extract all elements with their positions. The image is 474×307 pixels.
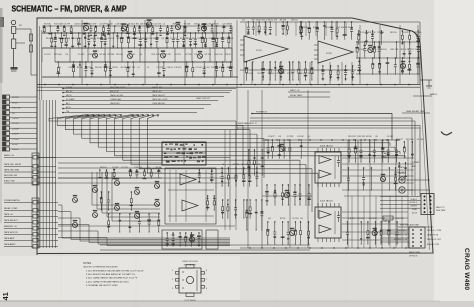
svg-text:C7 102: C7 102 xyxy=(195,67,202,69)
svg-text:R8 150: R8 150 xyxy=(280,20,287,22)
svg-text:R31 12K: R31 12K xyxy=(357,136,365,138)
svg-text:C3 10P: C3 10P xyxy=(12,128,19,130)
svg-text:R8 150: R8 150 xyxy=(380,49,387,51)
svg-text:C7 102: C7 102 xyxy=(12,139,19,141)
svg-text:C41 104: C41 104 xyxy=(74,38,82,40)
svg-text:R3 1K: R3 1K xyxy=(127,38,133,40)
svg-text:TAPE AMP2: TAPE AMP2 xyxy=(4,243,16,246)
svg-text:IC401 TA7222: IC401 TA7222 xyxy=(320,200,334,203)
svg-text:5. NOMINAL VALUE NOT USED: 5. NOMINAL VALUE NOT USED xyxy=(86,284,118,287)
svg-text:C3 10P: C3 10P xyxy=(99,24,106,26)
svg-text:R9 10K: R9 10K xyxy=(116,54,123,56)
svg-text:EJECT SW: EJECT SW xyxy=(4,181,15,183)
svg-text:C9 47P: C9 47P xyxy=(402,32,409,34)
svg-text:R7 220: R7 220 xyxy=(257,73,264,75)
svg-text:R2 68: R2 68 xyxy=(12,144,18,146)
svg-text:LEAD SW ANT GND: LEAD SW ANT GND xyxy=(406,110,425,113)
svg-text:AM STOP: AM STOP xyxy=(110,90,120,93)
svg-text:R14 2.2K: R14 2.2K xyxy=(214,38,223,40)
svg-text:R5 33K: R5 33K xyxy=(108,54,115,56)
svg-text:PURPLE: PURPLE xyxy=(409,202,417,204)
svg-text:PURPLE + COM: PURPLE + COM xyxy=(427,230,442,232)
svg-text:R3 1K: R3 1K xyxy=(156,167,162,169)
svg-text:R17 100K: R17 100K xyxy=(224,38,234,40)
svg-text:R5 33K: R5 33K xyxy=(325,27,332,29)
svg-text:R17 100K: R17 100K xyxy=(54,24,64,26)
svg-text:POWER: POWER xyxy=(412,162,420,164)
svg-text:3. ALL CAPACITANCE VALUES ARE: 3. ALL CAPACITANCE VALUES ARE IN μF, P=1… xyxy=(86,277,138,280)
svg-text:BLUE: BLUE xyxy=(412,212,418,214)
svg-text:MUTE AB COMP: MUTE AB COMP xyxy=(110,86,126,89)
svg-text:C22 47U: C22 47U xyxy=(187,38,195,40)
svg-text:R21 560: R21 560 xyxy=(85,67,93,69)
svg-text:TAPE LED FM: TAPE LED FM xyxy=(110,94,123,97)
svg-text:C3 10P: C3 10P xyxy=(297,136,304,138)
svg-text:BROWN P.L. IN: BROWN P.L. IN xyxy=(394,239,408,241)
svg-text:C2 223: C2 223 xyxy=(104,67,111,69)
svg-text:TAPE MOTOR: TAPE MOTOR xyxy=(4,231,18,234)
svg-text:ST LAMP: ST LAMP xyxy=(66,98,75,101)
svg-text:R7 220: R7 220 xyxy=(12,123,19,125)
svg-text:RADIO SIDE: RADIO SIDE xyxy=(409,251,421,254)
svg-text:R17 100K: R17 100K xyxy=(137,38,147,40)
svg-text:RADIO +B: RADIO +B xyxy=(4,154,14,157)
svg-text:GREEN: GREEN xyxy=(410,206,417,208)
svg-text:C11 473: C11 473 xyxy=(306,73,314,75)
svg-text:R31 12K: R31 12K xyxy=(136,24,144,26)
svg-text:TAPE LED +B/FM: TAPE LED +B/FM xyxy=(4,163,21,166)
svg-text:RED BATT: RED BATT xyxy=(398,229,408,232)
svg-text:R21 560: R21 560 xyxy=(406,139,414,141)
svg-text:TAPE REC: TAPE REC xyxy=(110,102,120,105)
svg-text:C2 223: C2 223 xyxy=(233,164,240,166)
svg-text:MUTE: MUTE xyxy=(66,95,72,97)
svg-text:C9 47P: C9 47P xyxy=(146,20,153,22)
svg-text:R3 1K: R3 1K xyxy=(112,67,118,69)
svg-text:R5 33K: R5 33K xyxy=(46,38,53,40)
svg-text:R9 10K: R9 10K xyxy=(99,54,106,56)
svg-text:R2 68: R2 68 xyxy=(366,136,372,138)
svg-text:C11 473: C11 473 xyxy=(270,20,278,22)
svg-text:(TOP VIEW): (TOP VIEW) xyxy=(184,300,195,302)
svg-text:C34 01: C34 01 xyxy=(74,24,81,26)
svg-text:R12 4.7K: R12 4.7K xyxy=(277,73,286,75)
svg-text:C9 47P: C9 47P xyxy=(396,139,403,141)
svg-text:C9 47P: C9 47P xyxy=(63,24,70,26)
svg-text:WHITE F.P. OUT: WHITE F.P. OUT xyxy=(427,239,442,241)
svg-text:TAPE SELECT: TAPE SELECT xyxy=(152,94,166,97)
svg-text:OF PLUG: OF PLUG xyxy=(409,256,418,258)
svg-text:MEMORY +B: MEMORY +B xyxy=(4,226,17,228)
svg-text:C34 01: C34 01 xyxy=(298,73,305,75)
svg-text:C15 1U: C15 1U xyxy=(302,27,309,29)
svg-text:C9 47P: C9 47P xyxy=(78,54,85,56)
svg-text:6: 6 xyxy=(206,288,207,290)
svg-text:R31 12K: R31 12K xyxy=(348,136,356,138)
svg-text:IC401 TA7222: IC401 TA7222 xyxy=(320,145,334,148)
svg-text:R9 10K: R9 10K xyxy=(95,67,102,69)
svg-text:SCHEMATIC – FM, DRIVER, & AMP: SCHEMATIC – FM, DRIVER, & AMP xyxy=(12,3,127,13)
svg-text:FADER COMP: FADER COMP xyxy=(384,156,398,159)
svg-text:RECORD SW: RECORD SW xyxy=(4,175,17,177)
svg-text:1. ALL RESISTANCE VALUES ARE I: 1. ALL RESISTANCE VALUES ARE IN OHM, K=1… xyxy=(86,270,144,273)
svg-text:C9 47P: C9 47P xyxy=(157,67,164,69)
svg-text:R3 1K: R3 1K xyxy=(201,24,207,26)
svg-text:LM383 UPC1185: LM383 UPC1185 xyxy=(182,261,199,263)
svg-text:1: 1 xyxy=(172,270,173,272)
svg-text:BLACK: BLACK xyxy=(398,166,405,169)
svg-text:R31 12K: R31 12K xyxy=(368,32,376,34)
svg-text:RELAY COMP: RELAY COMP xyxy=(4,207,18,210)
svg-text:BLUE R COM: BLUE R COM xyxy=(427,244,439,246)
svg-text:R3 1K: R3 1K xyxy=(345,27,351,29)
svg-text:R14 2.2K: R14 2.2K xyxy=(395,218,404,220)
svg-text:TUNING AB: TUNING AB xyxy=(110,98,121,101)
svg-text:IC202: IC202 xyxy=(326,53,333,55)
svg-text:R8 150: R8 150 xyxy=(100,167,107,169)
svg-text:R3 1K: R3 1K xyxy=(225,54,231,56)
svg-text:R21 560: R21 560 xyxy=(54,38,62,40)
svg-text:C2 223: C2 223 xyxy=(121,167,128,169)
svg-text:R12 4.7K: R12 4.7K xyxy=(252,164,261,166)
svg-text:R8 150: R8 150 xyxy=(291,20,298,22)
svg-text:C15 1U: C15 1U xyxy=(68,67,75,69)
svg-text:R7 220: R7 220 xyxy=(205,54,212,56)
svg-text:C22 47U: C22 47U xyxy=(163,54,171,56)
svg-text:R14 2.2K: R14 2.2K xyxy=(12,108,21,110)
svg-text:FM 1M: FM 1M xyxy=(66,87,73,89)
svg-text:C2 223: C2 223 xyxy=(44,54,51,56)
svg-text:R2 68: R2 68 xyxy=(121,67,127,69)
svg-text:EJECT SW: EJECT SW xyxy=(152,87,162,89)
svg-text:C18 33U: C18 33U xyxy=(127,24,135,26)
svg-text:C15 1U: C15 1U xyxy=(203,67,210,69)
svg-text:R5 33K: R5 33K xyxy=(12,97,19,99)
svg-text:GRAY F.P. IN: GRAY F.P. IN xyxy=(427,234,439,237)
svg-text:SIDE VIEW: SIDE VIEW xyxy=(436,210,446,212)
svg-text:2: 2 xyxy=(172,279,173,281)
svg-text:BLACK: BLACK xyxy=(384,152,391,155)
svg-text:UNLESS OTHERWISE INDICATED:: UNLESS OTHERWISE INDICATED: xyxy=(83,266,119,269)
svg-text:R7 220: R7 220 xyxy=(129,67,136,69)
svg-text:GREEN P.L. IN: GREEN P.L. IN xyxy=(394,235,407,237)
svg-text:3: 3 xyxy=(172,288,173,290)
svg-text:R9 10K: R9 10K xyxy=(246,73,253,75)
svg-text:C9 47P: C9 47P xyxy=(368,49,375,51)
svg-text:C15 1U: C15 1U xyxy=(287,73,294,75)
svg-text:TAPE LED GND: TAPE LED GND xyxy=(4,169,20,172)
svg-text:TAPE SEL CONT: TAPE SEL CONT xyxy=(152,98,168,101)
svg-text:7: 7 xyxy=(206,279,207,281)
svg-text:TM: TM xyxy=(66,111,69,113)
svg-text:R21 560: R21 560 xyxy=(241,164,249,166)
svg-text:TAPE +B: TAPE +B xyxy=(4,213,13,216)
svg-text:R12 4.7K: R12 4.7K xyxy=(152,54,161,56)
svg-text:CRAIG W460: CRAIG W460 xyxy=(463,248,470,290)
svg-text:PINK PINK AUTO ANT: PINK PINK AUTO ANT xyxy=(400,224,420,227)
svg-text:NOTES: NOTES xyxy=(83,262,92,265)
svg-text:4. ALL CAPACITORS ARE RATED AT: 4. ALL CAPACITORS ARE RATED AT 50(V) xyxy=(86,280,129,283)
svg-text:C11 473: C11 473 xyxy=(153,24,161,26)
svg-text:R7 220: R7 220 xyxy=(378,32,385,34)
svg-text:IC201: IC201 xyxy=(256,50,263,52)
svg-text:R8 150: R8 150 xyxy=(83,23,90,25)
svg-text:41: 41 xyxy=(1,292,10,300)
svg-text:TAPE SELECT: TAPE SELECT xyxy=(4,219,19,222)
svg-text:R7 220: R7 220 xyxy=(212,24,219,26)
svg-text:C9 47P: C9 47P xyxy=(90,24,97,26)
svg-text:R3 1K: R3 1K xyxy=(194,24,200,26)
svg-text:C22 47U: C22 47U xyxy=(134,167,142,169)
svg-text:C2 223: C2 223 xyxy=(112,167,119,169)
svg-text:C34 01: C34 01 xyxy=(211,67,218,69)
svg-text:R9 10K: R9 10K xyxy=(358,49,365,51)
svg-text:PHONE JACK: PHONE JACK xyxy=(394,171,407,174)
svg-text:R21 560: R21 560 xyxy=(54,54,62,56)
svg-text:AF R: AF R xyxy=(66,106,71,109)
svg-text:C15 1U: C15 1U xyxy=(268,73,275,75)
svg-text:RADIO +B: RADIO +B xyxy=(290,89,300,92)
svg-text:C11 473: C11 473 xyxy=(174,67,182,69)
svg-text:FUSE 5A: FUSE 5A xyxy=(382,220,391,223)
svg-text:C2 223: C2 223 xyxy=(174,54,181,56)
svg-text:C2 223: C2 223 xyxy=(287,136,294,138)
svg-text:C3 10P: C3 10P xyxy=(387,136,394,138)
svg-text:C3 10P: C3 10P xyxy=(417,139,424,141)
svg-text:R3 1K: R3 1K xyxy=(12,102,18,104)
svg-text:8: 8 xyxy=(206,270,207,272)
svg-text:R2 68: R2 68 xyxy=(219,67,225,69)
svg-text:SPKR GND RET L R: SPKR GND RET L R xyxy=(238,123,257,125)
svg-text:C15 1U: C15 1U xyxy=(358,32,365,34)
svg-text:R9 10K: R9 10K xyxy=(64,38,71,40)
svg-text:R31 12K: R31 12K xyxy=(391,49,399,51)
svg-text:C34 01: C34 01 xyxy=(166,67,173,69)
svg-text:C9 47P: C9 47P xyxy=(12,134,19,136)
svg-text:C2 223: C2 223 xyxy=(292,218,299,220)
svg-text:C34 01: C34 01 xyxy=(108,38,115,40)
svg-text:R8 150: R8 150 xyxy=(390,32,397,34)
svg-text:R7 220: R7 220 xyxy=(227,67,234,69)
svg-text:RADIO TO: RADIO TO xyxy=(436,206,445,209)
svg-text:R2 68: R2 68 xyxy=(117,38,123,40)
svg-text:C11 473: C11 473 xyxy=(197,38,205,40)
svg-text:AM 1M: AM 1M xyxy=(66,90,73,93)
svg-text:TAPE LED: TAPE LED xyxy=(152,90,162,93)
svg-text:C34 01: C34 01 xyxy=(12,149,19,151)
svg-text:TUNE METER: TUNE METER xyxy=(152,103,166,105)
svg-text:LAMP CIRCUIT: LAMP CIRCUIT xyxy=(196,97,211,100)
svg-text:R17 100K: R17 100K xyxy=(252,20,262,22)
svg-text:C15 1U: C15 1U xyxy=(170,38,177,40)
svg-text:R14 2.2K: R14 2.2K xyxy=(214,54,223,56)
svg-text:C34 01: C34 01 xyxy=(12,118,19,120)
svg-text:2. ALL RESISTORS ARE RATED AT: 2. ALL RESISTORS ARE RATED AT 1/4 WATT 5… xyxy=(86,273,135,276)
svg-text:R12 4.7K: R12 4.7K xyxy=(401,49,410,51)
svg-text:EARTH: EARTH xyxy=(430,93,438,96)
svg-text:RELAY LAMP: RELAY LAMP xyxy=(290,94,303,97)
svg-text:C9 47P: C9 47P xyxy=(268,136,275,138)
svg-text:R3 1K: R3 1K xyxy=(280,218,286,220)
svg-text:R7 220: R7 220 xyxy=(185,54,192,56)
svg-text:POWER EARTH: POWER EARTH xyxy=(4,199,20,202)
svg-text:R5 33K: R5 33K xyxy=(44,24,51,26)
svg-text:R5 33K: R5 33K xyxy=(357,218,364,220)
svg-text:TAPE AMP: TAPE AMP xyxy=(4,237,15,240)
